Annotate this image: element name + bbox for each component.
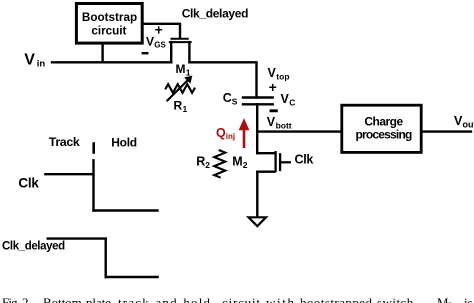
wire Cs bottom to M2 drain [256, 104, 258, 153]
svg-text:Hold: Hold [111, 136, 136, 150]
svg-text:with: with [266, 295, 295, 303]
label VGS [146, 35, 166, 50]
wire bootstrap input from Vin line [101, 44, 103, 62]
node Vin label [24, 52, 45, 70]
node Vbott label [267, 115, 292, 130]
svg-text:R: R [196, 154, 205, 168]
svg-text:Track: Track [49, 135, 80, 149]
svg-text:Clk_delayed: Clk_delayed [182, 7, 248, 21]
svg-text:Clk: Clk [18, 176, 39, 191]
svg-text:2: 2 [243, 160, 248, 170]
Clk_delayed waveform high segment [48, 237, 106, 239]
label CS [223, 91, 238, 106]
label Qinj (red) [216, 126, 235, 141]
figure caption [2, 295, 473, 303]
svg-text:2: 2 [205, 160, 210, 170]
svg-text:in: in [37, 59, 46, 70]
svg-text:switch.: switch. [377, 295, 417, 303]
svg-text:circuit: circuit [222, 295, 260, 303]
svg-text:Clk: Clk [295, 152, 314, 166]
label R1 [174, 99, 188, 115]
svg-text:V: V [24, 52, 35, 69]
svg-text:bott: bott [276, 120, 292, 130]
node Vtop label [268, 66, 290, 81]
charge processing box U2 [342, 105, 421, 152]
svg-text:+: + [155, 21, 163, 37]
wire Vin to M1 source [52, 61, 171, 63]
svg-text:+: + [269, 79, 277, 95]
wire M1 drain to Cs top [189, 62, 256, 97]
ground [249, 217, 267, 226]
dashed track/hold boundary [92, 144, 95, 153]
svg-text:Q: Q [216, 126, 226, 140]
label - (cap polarity) [271, 109, 276, 112]
svg-text:V: V [267, 115, 276, 129]
svg-text:2.: 2. [22, 295, 29, 303]
resistor R1 (variable, annotation) [166, 76, 195, 100]
svg-text:bootstrapped: bootstrapped [300, 295, 373, 303]
wire Vbott to charge processing [257, 130, 343, 132]
svg-text:Bottom-plate: Bottom-plate [43, 295, 111, 303]
svg-text:inj: inj [226, 132, 235, 141]
svg-text:Fig.: Fig. [2, 295, 20, 303]
transistor M2 (bottom-plate switch) [257, 152, 290, 216]
svg-text:V: V [146, 35, 154, 49]
svg-text:M: M [176, 62, 186, 76]
label VC [281, 92, 296, 107]
Clk_delayed waveform low segment [106, 276, 158, 278]
svg-text:GS: GS [154, 41, 166, 50]
Clk_delayed waveform falling edge [104, 239, 106, 277]
transistor M1 (bootstrapped switch) [170, 39, 191, 63]
label - (VGS polarity) [143, 52, 148, 54]
svg-text:V: V [281, 92, 290, 106]
svg-text:S: S [232, 96, 238, 106]
red arrow Qinj [239, 119, 248, 146]
Clk waveform low segment [94, 209, 158, 211]
svg-text:R: R [174, 99, 183, 113]
svg-text:processing: processing [355, 128, 411, 142]
svg-text:track-and-hold: track-and-hold [118, 295, 211, 303]
label M2 [232, 154, 247, 170]
capacitor CS [243, 98, 273, 105]
svg-text:C: C [289, 97, 295, 107]
svg-text:circuit: circuit [91, 25, 126, 38]
svg-text:out: out [463, 119, 474, 129]
bootstrap circuit box U1 [76, 4, 142, 44]
svg-text:M: M [232, 154, 242, 168]
Clk waveform high segment [45, 173, 93, 175]
label M1 [176, 62, 191, 78]
svg-text:Charge: Charge [364, 114, 403, 128]
svg-text:1: 1 [183, 104, 188, 114]
node Vout label [454, 114, 474, 129]
wire bootstrap output to M1 gate [144, 24, 181, 38]
wire charge processing to Vout [422, 130, 471, 132]
resistor R2 (annotation) [214, 150, 225, 177]
svg-text:top: top [276, 71, 289, 81]
Clk waveform falling edge [92, 160, 94, 210]
svg-text:C: C [223, 91, 232, 105]
label R2 [196, 154, 210, 170]
svg-text:Bootstrap: Bootstrap [82, 11, 137, 24]
svg-text:Clk_delayed: Clk_delayed [2, 241, 65, 253]
svg-text:1: 1 [186, 67, 191, 77]
svg-text:is: is [464, 295, 473, 303]
